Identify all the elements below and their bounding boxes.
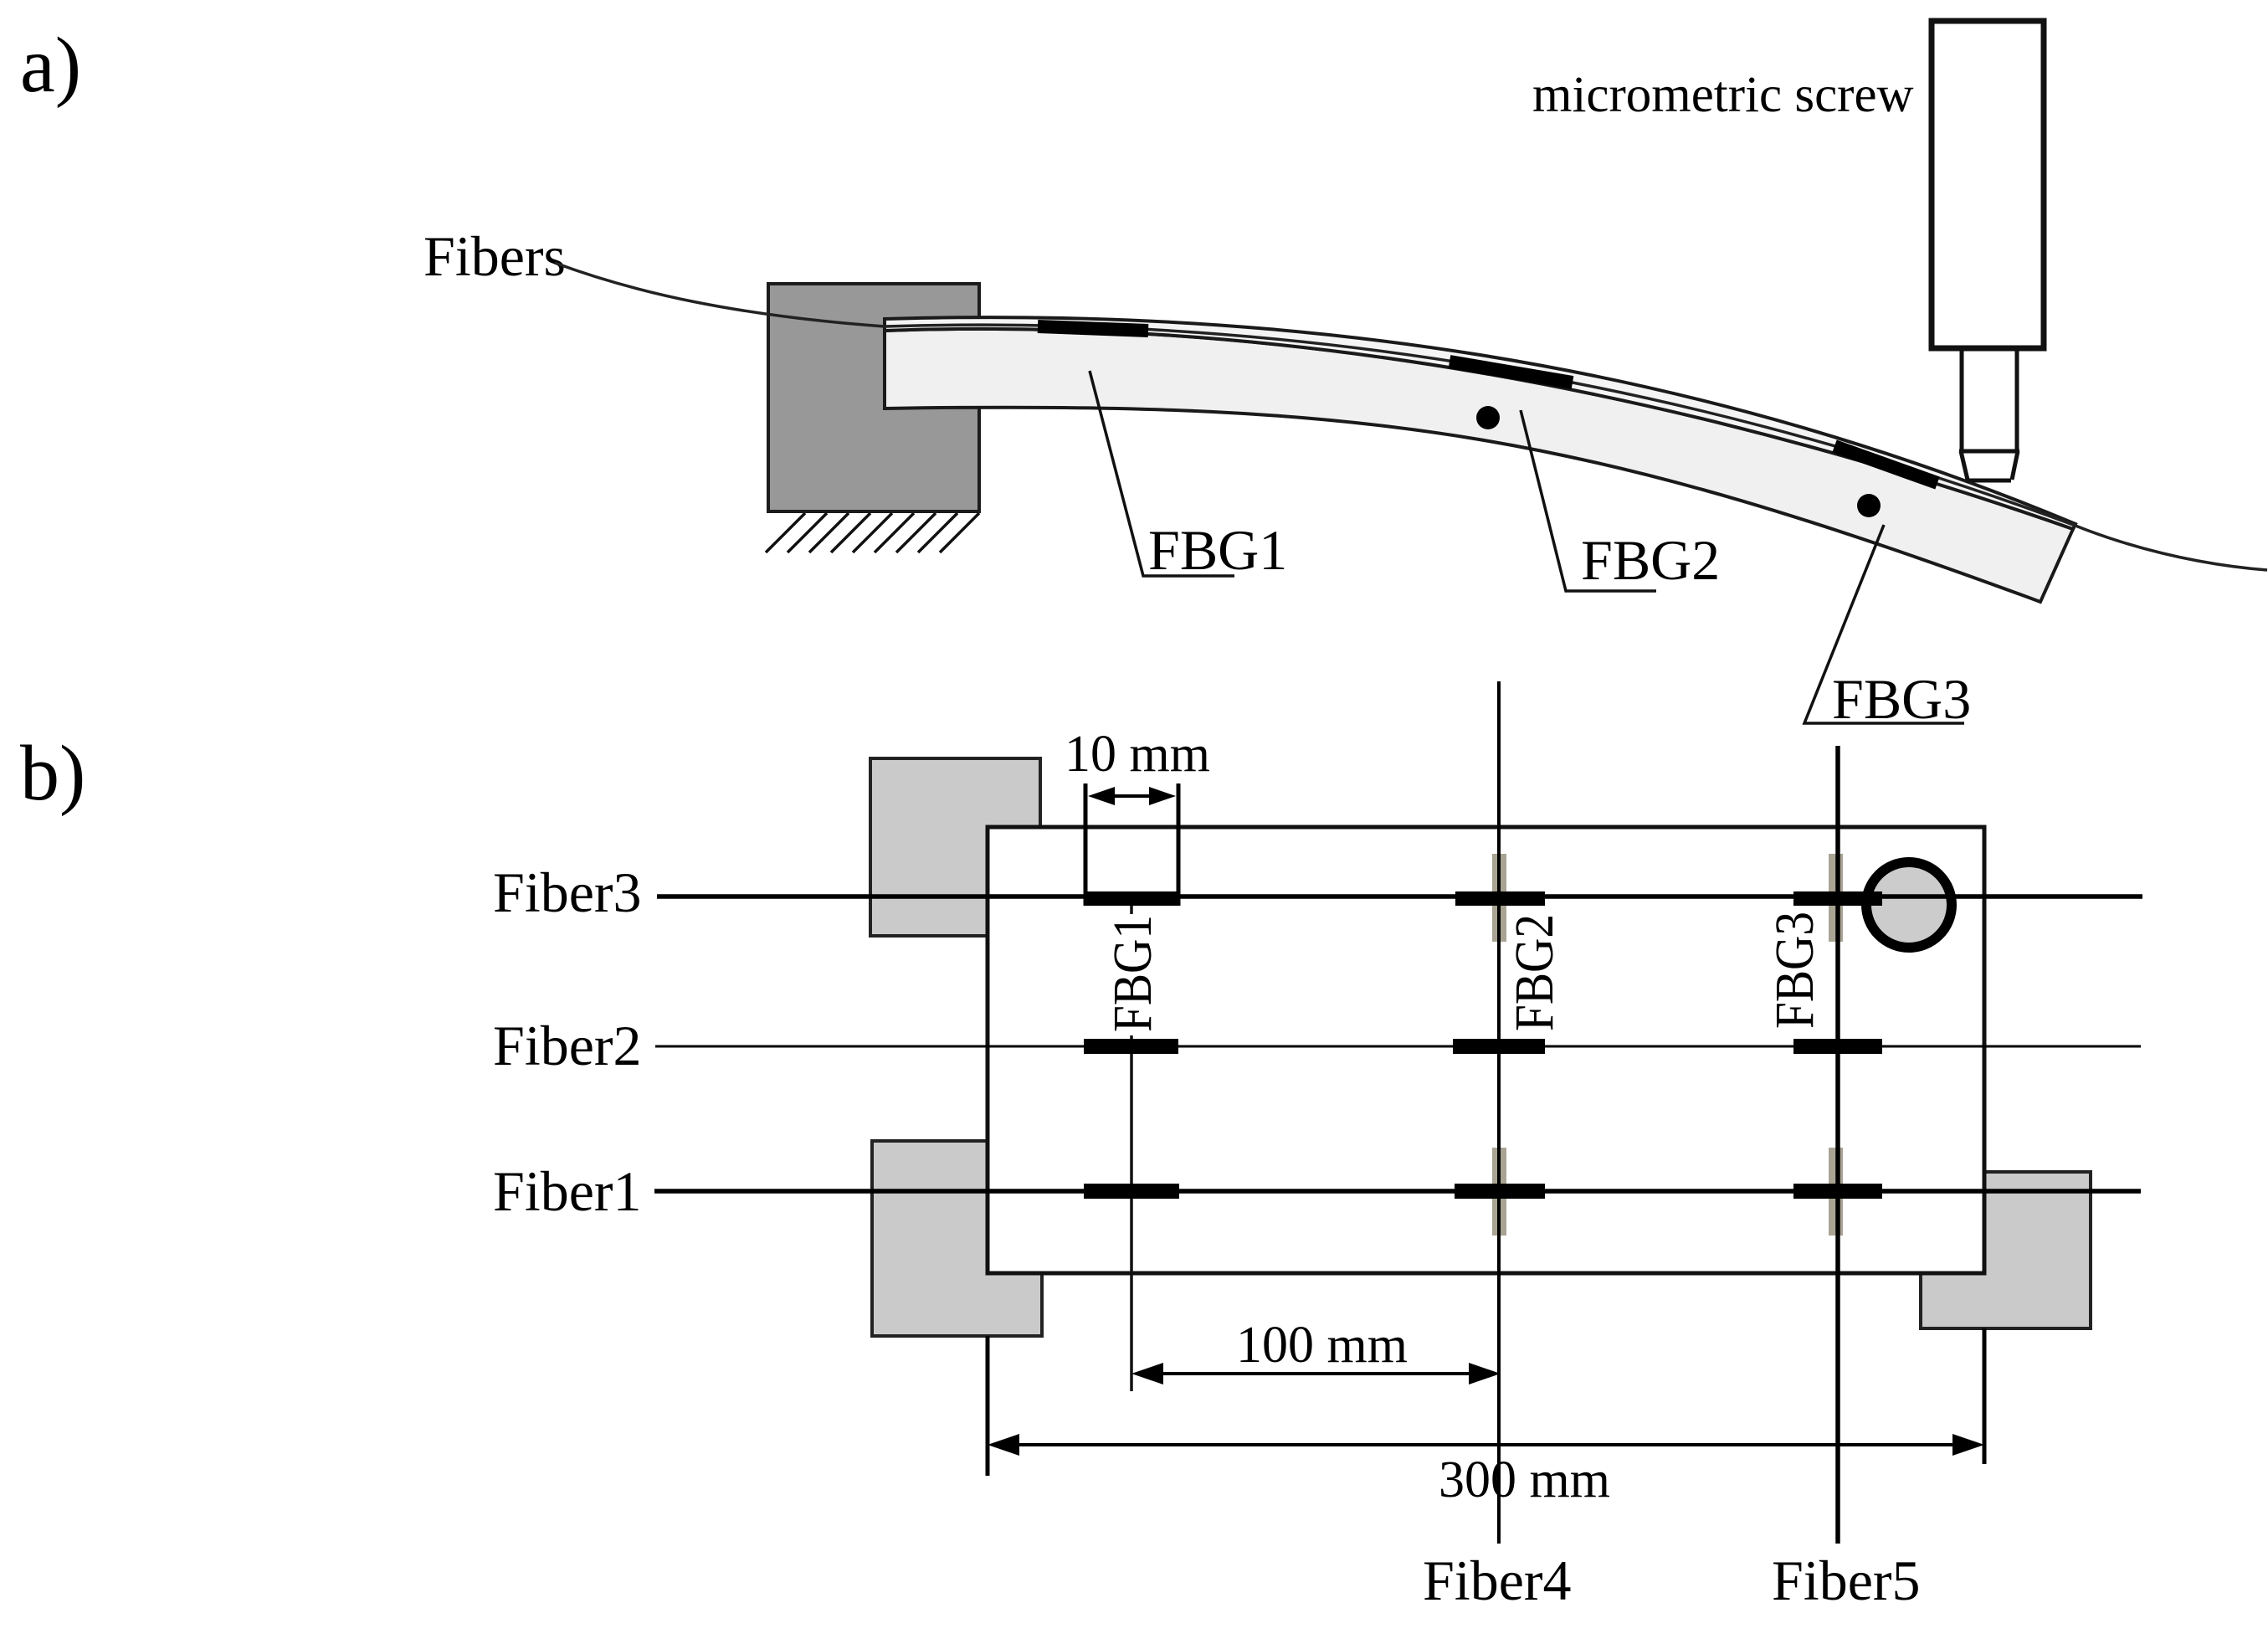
FBG on Fiber5 at Fiber3 (olive) [1829, 854, 1843, 942]
Fiber5 line [1835, 746, 1840, 1544]
FBG1 mark on beam [1038, 326, 1148, 331]
micrometric screw stem [1959, 348, 2019, 480]
micrometric screw body [1932, 21, 2044, 348]
rotated label FBG1 background [1112, 914, 1152, 1035]
FBG3 dot [1857, 494, 1881, 517]
Fiber2 line [655, 1045, 2141, 1048]
svg-text:a): a) [20, 22, 81, 109]
FBG on Fiber4 at Fiber3 (olive) [1492, 854, 1506, 942]
clamp top-left [870, 758, 1040, 936]
clamp bottom-left [872, 1141, 1042, 1336]
FBG on Fiber5 at Fiber1 (olive) [1829, 1148, 1843, 1236]
svg-text:Fiber5: Fiber5 [1772, 1549, 1921, 1612]
hole circle [1866, 862, 1952, 948]
FBG3 bar on Fiber3 [1793, 891, 1882, 906]
10mm gauge box verticals [1084, 783, 1088, 906]
FBG2 mark on beam [1450, 362, 1573, 383]
FBG3 mark on beam [1834, 446, 1937, 483]
300 mm dimension [988, 1434, 1984, 1456]
plate [988, 827, 1984, 1273]
svg-text:FBG3: FBG3 [1764, 912, 1825, 1029]
svg-text:Fiber2: Fiber2 [493, 1014, 642, 1077]
FBG3 leader line [1804, 525, 1964, 723]
beam (cantilever body) [885, 329, 2073, 602]
FBG2 bar on Fiber1 [1455, 1184, 1545, 1199]
svg-text:b): b) [20, 730, 85, 817]
10 mm dimension [1088, 787, 1176, 805]
ground hatching [766, 513, 979, 552]
FBG1 bar on Fiber2 [1084, 1039, 1178, 1054]
Fiber3 line [657, 894, 2142, 899]
fiber (wire with lead-in and exit tail) [555, 263, 2267, 570]
clamp bottom-right [1921, 1172, 2091, 1328]
svg-text:FBG1: FBG1 [1102, 915, 1163, 1032]
svg-text:100 mm: 100 mm [1236, 1317, 1408, 1374]
plate left edge extension [986, 1336, 990, 1476]
Fiber4 line [1497, 681, 1501, 1544]
svg-text:Fiber3: Fiber3 [493, 861, 642, 924]
FBG3 bar on Fiber2 [1793, 1039, 1882, 1054]
FBG2 dot [1476, 406, 1500, 429]
svg-text:10 mm: 10 mm [1065, 726, 1210, 783]
FBG on Fiber4 at Fiber1 (olive) [1492, 1148, 1506, 1236]
FBG1 bar on Fiber3 [1086, 891, 1178, 906]
plate right edge extension [1983, 1328, 1987, 1464]
FBG2 bar on Fiber2 [1453, 1039, 1545, 1054]
svg-text:FBG3: FBG3 [1832, 667, 1971, 731]
FBG1 column extension line [1130, 906, 1133, 1391]
svg-text:Fiber1: Fiber1 [493, 1159, 642, 1223]
svg-text:300 mm: 300 mm [1439, 1451, 1610, 1508]
Fiber1 line [654, 1189, 2141, 1194]
svg-text:FBG2: FBG2 [1581, 528, 1720, 592]
100 mm dimension [1131, 1363, 1501, 1385]
wall block (fixed support) [768, 284, 979, 511]
svg-text:Fibers: Fibers [423, 224, 566, 288]
fiber strip on beam [885, 317, 2076, 529]
FBG3 bar on Fiber1 [1793, 1184, 1882, 1199]
FBG1 bar on Fiber1 [1084, 1184, 1179, 1199]
svg-text:Fiber4: Fiber4 [1423, 1549, 1572, 1612]
svg-text:FBG2: FBG2 [1504, 914, 1565, 1031]
FBG2 bar on Fiber3 [1455, 891, 1545, 906]
FBG2 leader line [1521, 410, 1656, 591]
svg-text:micrometric screw: micrometric screw [1532, 67, 1914, 123]
FBG1 leader line [1090, 371, 1234, 576]
svg-text:FBG1: FBG1 [1148, 518, 1287, 582]
